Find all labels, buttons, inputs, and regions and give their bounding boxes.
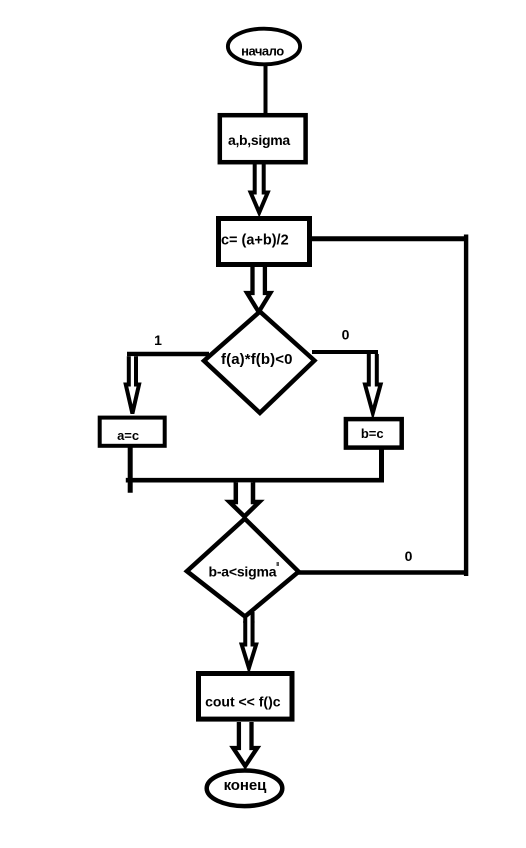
svg-text:1: 1 bbox=[154, 332, 162, 348]
svg-text:f(a)*f(b)<0: f(a)*f(b)<0 bbox=[221, 351, 293, 368]
svg-text:начало: начало bbox=[241, 43, 284, 58]
svg-text:конец: конец bbox=[224, 777, 267, 794]
svg-text:a,b,sigma: a,b,sigma bbox=[228, 132, 290, 148]
svg-text:0: 0 bbox=[342, 327, 350, 343]
svg-text:b-a<sigma: b-a<sigma bbox=[208, 564, 276, 580]
svg-text:0: 0 bbox=[405, 548, 413, 564]
svg-text:c= (a+b)/2: c= (a+b)/2 bbox=[221, 233, 289, 249]
svg-text:b=c: b=c bbox=[361, 426, 384, 441]
svg-text:a=c: a=c bbox=[117, 428, 139, 443]
svg-text:cout << f()c: cout << f()c bbox=[205, 694, 281, 710]
